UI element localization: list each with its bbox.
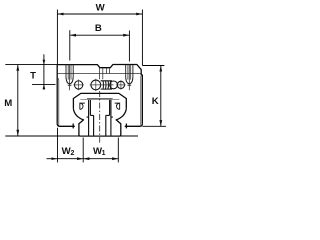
svg-text:B: B	[95, 23, 102, 34]
svg-text:2: 2	[71, 150, 75, 157]
svg-text:1: 1	[102, 150, 106, 157]
svg-text:K: K	[152, 96, 159, 107]
svg-text:W: W	[96, 3, 106, 14]
svg-text:M: M	[4, 98, 12, 109]
svg-text:T: T	[30, 71, 36, 82]
